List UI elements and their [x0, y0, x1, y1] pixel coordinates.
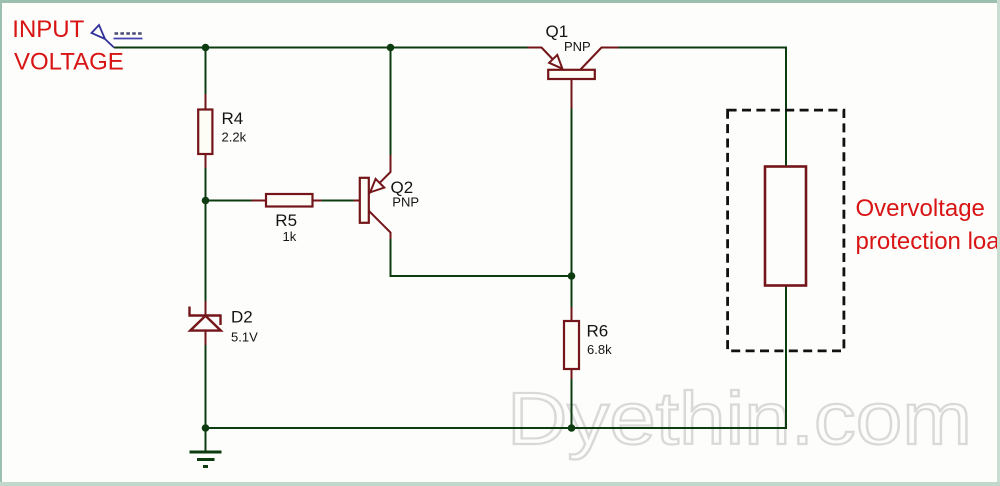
svg-text:6.8k: 6.8k — [587, 342, 612, 357]
svg-text:INPUT: INPUT — [12, 16, 84, 43]
svg-text:VOLTAGE: VOLTAGE — [14, 49, 124, 76]
svg-text:PNP: PNP — [392, 195, 419, 210]
svg-text:PNP: PNP — [564, 39, 591, 54]
svg-text:1k: 1k — [283, 229, 297, 244]
svg-text:R6: R6 — [587, 322, 609, 341]
svg-text:Overvoltage: Overvoltage — [856, 195, 985, 222]
svg-text:5.1V: 5.1V — [231, 330, 258, 345]
svg-text:Dyethin.com: Dyethin.com — [507, 377, 972, 460]
svg-text:D2: D2 — [231, 308, 253, 327]
svg-text:2.2k: 2.2k — [222, 130, 247, 145]
svg-text:R4: R4 — [222, 109, 244, 128]
svg-text:R5: R5 — [275, 211, 297, 230]
svg-text:protection load: protection load — [856, 228, 1000, 255]
